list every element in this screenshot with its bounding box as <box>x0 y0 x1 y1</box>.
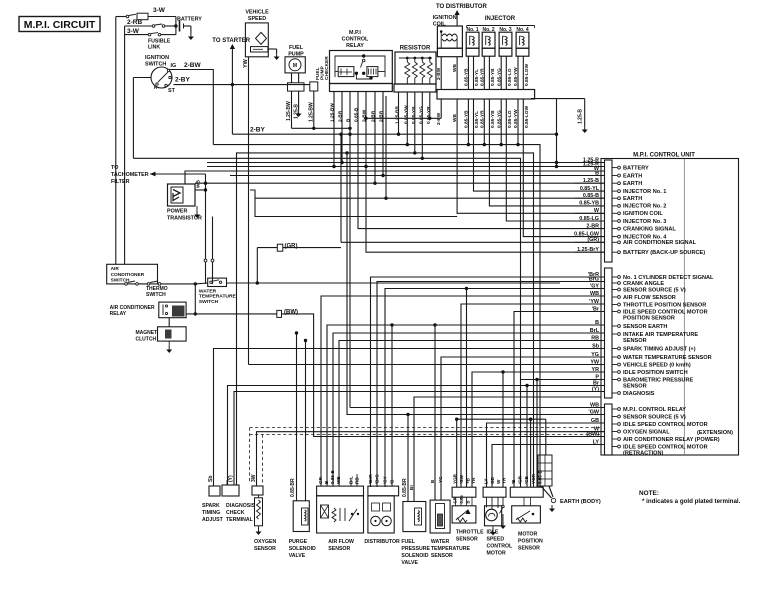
svg-text:IDLE: IDLE <box>487 530 499 536</box>
wire diagnosis Y row <box>234 392 605 486</box>
svg-text:AIR FLOW SENSOR: AIR FLOW SENSOR <box>623 295 676 301</box>
svg-text:0.85-YB: 0.85-YB <box>490 68 496 86</box>
power transistor Q1 <box>168 184 196 206</box>
air flow extra pins <box>350 480 352 486</box>
svg-text:SENSOR: SENSOR <box>518 546 540 552</box>
wire power transistor right riser <box>205 174 207 259</box>
svg-text:LY: LY <box>484 479 489 484</box>
svg-text:GB: GB <box>490 476 495 484</box>
injector No. 1 pins <box>467 56 469 89</box>
wire air-flow GY riser <box>466 289 468 488</box>
ground earth body <box>551 505 553 509</box>
svg-text:CONDITIONER: CONDITIONER <box>111 272 145 278</box>
svg-text:CHECK: CHECK <box>226 510 245 516</box>
wire air flow BrL row <box>333 333 605 486</box>
wire 2-BW branch to bus <box>440 99 442 118</box>
svg-text:0.85-YL: 0.85-YL <box>474 111 480 128</box>
svg-text:SPEED: SPEED <box>248 16 266 22</box>
throttle sensor <box>452 487 476 497</box>
wire fuel pump 1.25-BW down <box>291 91 293 128</box>
svg-text:1.25-BW: 1.25-BW <box>309 102 315 122</box>
wire barometric P row <box>521 379 605 381</box>
svg-text:OXYGEN: OXYGEN <box>254 539 276 545</box>
wire idle motor GB row <box>487 423 605 487</box>
wire relay 0.85-B row <box>386 96 605 198</box>
svg-text:1.25-BW: 1.25-BW <box>286 101 292 121</box>
svg-text:0.85-YR: 0.85-YR <box>426 106 432 124</box>
svg-text:'GY: 'GY <box>383 476 388 484</box>
svg-text:BAROMETRIC PRESSURE: BAROMETRIC PRESSURE <box>623 377 694 383</box>
svg-text:SENSOR: SENSOR <box>254 546 276 552</box>
svg-text:0.85-YW: 0.85-YW <box>404 105 410 124</box>
wire YW vehicle speed down <box>248 57 250 365</box>
svg-text:BATTERY: BATTERY <box>623 165 649 171</box>
svg-text:INJECTOR: INJECTOR <box>485 16 516 22</box>
wire vehicle speed YW row <box>249 364 605 366</box>
wire ST 2-BY <box>174 84 311 86</box>
wire idle motor switch riser <box>502 372 504 487</box>
svg-text:PRESSURE: PRESSURE <box>401 546 430 552</box>
svg-text:SENSOR: SENSOR <box>431 553 453 559</box>
wire air flow RB row <box>339 341 605 487</box>
svg-text:M: M <box>293 63 297 69</box>
svg-text:AIR CONDITIONER RELAY (POWER): AIR CONDITIONER RELAY (POWER) <box>623 437 720 443</box>
svg-text:SENSOR SOURCE (5 V): SENSOR SOURCE (5 V) <box>623 414 686 420</box>
svg-text:IDLE SPEED CONTROL MOTOR: IDLE SPEED CONTROL MOTOR <box>623 309 708 315</box>
svg-text:0.85-YW: 0.85-YW <box>513 67 519 86</box>
relay pins down <box>333 92 335 97</box>
wire 2-RB fuse line <box>125 25 152 27</box>
svg-text:ST: ST <box>168 88 176 94</box>
svg-text:(GR): (GR) <box>285 244 298 250</box>
battery B1 <box>174 24 177 27</box>
svg-text:TO DISTRIBUTOR: TO DISTRIBUTOR <box>436 4 487 10</box>
wire fuel pump 1.25-B to earth <box>298 91 300 110</box>
svg-text:WATER TEMPERATURE SENSOR: WATER TEMPERATURE SENSOR <box>623 355 712 361</box>
svg-text:AIR: AIR <box>111 266 120 272</box>
wire barometric Br row <box>228 386 605 486</box>
svg-text:VALVE: VALVE <box>401 560 418 566</box>
svg-text:M.P.I. CONTROL RELAY: M.P.I. CONTROL RELAY <box>623 407 686 413</box>
svg-text:W: W <box>496 479 501 484</box>
svg-text:EARTH: EARTH <box>623 196 642 202</box>
svg-text:0.85-BR: 0.85-BR <box>290 478 296 497</box>
svg-text:0.85-YG: 0.85-YG <box>496 68 502 86</box>
wire injector feed stubs <box>467 99 469 145</box>
svg-text:CLUTCH: CLUTCH <box>136 337 157 343</box>
svg-text:FUEL: FUEL <box>289 45 304 51</box>
connector (BW) <box>277 310 282 317</box>
svg-text:'B: 'B <box>511 479 516 484</box>
wire relay 1.25-B row <box>195 182 605 184</box>
svg-text:0.85-BR: 0.85-BR <box>402 478 408 497</box>
svg-text:BrL: BrL <box>349 476 354 484</box>
svg-text:ADJUST: ADJUST <box>202 517 224 523</box>
svg-text:WATER: WATER <box>199 288 217 294</box>
injector No. 4 pins <box>517 56 519 89</box>
svg-text:INJECTOR No. 3: INJECTOR No. 3 <box>623 219 666 225</box>
shield dashes around oxygen wire <box>250 427 602 429</box>
svg-text:1.25-BW: 1.25-BW <box>330 103 336 122</box>
wire ignition coil W row <box>457 99 604 213</box>
svg-text:AIR CONDITIONER SIGNAL: AIR CONDITIONER SIGNAL <box>623 240 697 246</box>
svg-text:GR: GR <box>453 497 458 503</box>
wire injector1 0.85-YL row <box>474 99 605 191</box>
wire relay pin deep drop to MPI-relay row <box>349 96 351 408</box>
wire bus 2-BY horizontal <box>232 133 556 135</box>
svg-text:EARTH: EARTH <box>623 173 642 179</box>
wire injector3 row <box>506 99 604 221</box>
wire resistor drops <box>398 96 400 134</box>
svg-text:0.85-LG: 0.85-LG <box>507 68 513 86</box>
svg-text:0.85-YG: 0.85-YG <box>419 106 425 124</box>
svg-text:'BrR: 'BrR <box>368 474 373 484</box>
svg-text:YW: YW <box>243 58 249 68</box>
wire AC relay coil down <box>168 318 170 327</box>
svg-text:COIL: COIL <box>433 22 447 28</box>
air conditioner switch box <box>107 264 158 284</box>
svg-text:MOTOR: MOTOR <box>487 551 506 557</box>
svg-text:0.85-YL: 0.85-YL <box>474 69 480 86</box>
svg-text:TERMINAL: TERMINAL <box>226 517 254 523</box>
svg-text:YR: YR <box>502 477 507 484</box>
svg-text:IGNITION: IGNITION <box>433 15 457 21</box>
wire idle position switch YR row <box>472 372 605 487</box>
wire distributor GY sensor source row <box>385 289 605 488</box>
svg-text:VEHICLE SPEED (0 km/h): VEHICLE SPEED (0 km/h) <box>623 362 691 368</box>
wire vehicle speed to earth <box>268 48 276 50</box>
svg-text:YG: YG <box>438 476 443 483</box>
wire bus y144 from ignition IG <box>213 145 540 487</box>
wire second riser with connector <box>212 217 214 260</box>
svg-text:M.P.I. CIRCUIT: M.P.I. CIRCUIT <box>24 19 96 31</box>
ground power transistor <box>196 206 198 211</box>
motor position pin risers <box>526 386 528 488</box>
wire thermo junction riser to BW line <box>194 284 196 314</box>
svg-text:VEHICLE: VEHICLE <box>245 10 269 16</box>
wire AC relay BW row <box>282 314 605 437</box>
svg-text:EARTH (BODY): EARTH (BODY) <box>560 499 601 505</box>
svg-text:DIAGNOSIS: DIAGNOSIS <box>623 391 655 397</box>
wire fuel pump checker down <box>313 91 315 128</box>
ground magnet clutch <box>168 341 170 346</box>
svg-text:TEMPERATURE: TEMPERATURE <box>431 546 471 552</box>
wire injector4 row <box>523 99 604 237</box>
wire relay pin risers to MPI rows <box>342 96 605 163</box>
wire 3-W top fuse line <box>116 16 126 18</box>
svg-text:3-W: 3-W <box>153 7 166 14</box>
svg-text:2-BW: 2-BW <box>436 67 442 80</box>
svg-text:LINK: LINK <box>148 45 160 51</box>
wire 1.25-BrY backup row <box>366 96 605 252</box>
svg-text:FUEL: FUEL <box>401 539 415 545</box>
wire water temp B riser <box>434 325 436 500</box>
svg-text:POSITION: POSITION <box>518 539 543 545</box>
connector strip segment 3 <box>605 404 613 455</box>
wire water temp YG row <box>441 357 605 500</box>
svg-text:2-BY: 2-BY <box>175 77 190 84</box>
svg-text:2-RB: 2-RB <box>127 19 142 26</box>
svg-text:2-BR: 2-BR <box>338 110 344 122</box>
svg-text:OXYGEN SIGNAL: OXYGEN SIGNAL <box>623 429 670 435</box>
svg-text:POWER: POWER <box>167 209 187 215</box>
svg-text:IDLE SPEED CONTROL MOTOR: IDLE SPEED CONTROL MOTOR <box>623 444 708 450</box>
svg-text:1.25-B: 1.25-B <box>578 109 584 124</box>
svg-text:SENSOR SOURCE (5 V): SENSOR SOURCE (5 V) <box>623 287 686 293</box>
wire sensor source GW row <box>347 153 605 415</box>
wire motor position Br row <box>514 312 605 488</box>
svg-text:0.85-B: 0.85-B <box>538 470 543 484</box>
wire ignition switch to left feeder <box>133 77 151 79</box>
svg-text:TEMPERATURE: TEMPERATURE <box>199 294 237 300</box>
svg-text:SPEED: SPEED <box>487 537 505 543</box>
wire purge riser <box>296 333 298 501</box>
svg-text:TACHOMETER: TACHOMETER <box>111 172 149 178</box>
svg-text:BATTERY (BACK-UP SOURCE): BATTERY (BACK-UP SOURCE) <box>623 250 705 256</box>
svg-text:YR: YR <box>471 477 476 484</box>
svg-text:IDLE POSITION SWITCH: IDLE POSITION SWITCH <box>623 370 688 376</box>
distributor earth pin <box>391 325 393 486</box>
wire air flow WB row <box>321 296 605 486</box>
motor position sensor <box>510 487 543 497</box>
wire injector2 row <box>489 99 604 206</box>
svg-text:0.85-B: 0.85-B <box>354 107 360 122</box>
wire throttle earth riser <box>456 419 458 487</box>
MPI pin ticks and terminal labels <box>612 167 617 169</box>
svg-text:THROTTLE POSITION SENSOR: THROTTLE POSITION SENSOR <box>623 302 706 308</box>
ignition coil pins down <box>440 57 442 90</box>
svg-text:* indicates a gold plated term: * indicates a gold plated terminal. <box>642 498 741 505</box>
wire 2-BY drop to bus <box>231 85 233 135</box>
svg-text:CRANK ANGLE: CRANK ANGLE <box>623 281 664 287</box>
svg-text:(Y): (Y) <box>228 475 234 482</box>
title box M.P.I. CIRCUIT <box>19 17 100 32</box>
svg-text:DISTRIBUTOR: DISTRIBUTOR <box>364 539 400 545</box>
svg-text:AIR FLOW: AIR FLOW <box>328 539 354 545</box>
svg-text:1.25-BR: 1.25-BR <box>395 106 401 124</box>
svg-text:PURGE: PURGE <box>289 539 308 545</box>
svg-text:SENSOR EARTH: SENSOR EARTH <box>623 324 667 330</box>
svg-text:CONTROL: CONTROL <box>487 544 513 550</box>
svg-text:0.85-LGW: 0.85-LGW <box>524 105 530 128</box>
svg-text:SPARK TIMING ADJUST (+): SPARK TIMING ADJUST (+) <box>623 346 696 352</box>
svg-text:FILTER: FILTER <box>111 179 130 185</box>
wire left feeder B down to A/C switch <box>124 26 126 264</box>
svg-text:TO: TO <box>111 165 118 171</box>
wire jog stub near oxygen column <box>250 190 457 217</box>
svg-text:INTAKE AIR TEMPERATURE: INTAKE AIR TEMPERATURE <box>623 332 698 338</box>
svg-text:RELAY: RELAY <box>346 43 364 49</box>
joint connector <box>538 455 552 486</box>
svg-text:WATER: WATER <box>431 539 450 545</box>
svg-text:IDLE SPEED CONTROL MOTOR: IDLE SPEED CONTROL MOTOR <box>623 422 708 428</box>
wire relay 2-BR cranking row <box>358 96 605 229</box>
wire left feeder A down to A/C switch <box>115 17 117 265</box>
svg-text:M.P.I: M.P.I <box>349 30 361 36</box>
wire to earth body <box>541 486 552 498</box>
svg-text:B: B <box>346 118 352 122</box>
ground at battery <box>190 33 192 37</box>
svg-text:IGNITION COIL: IGNITION COIL <box>623 211 663 217</box>
svg-text:WB: WB <box>196 179 202 188</box>
idle speed control motor <box>483 487 506 497</box>
svg-text:WB: WB <box>452 63 458 72</box>
water temperature switch <box>208 278 227 286</box>
svg-text:+B: +B <box>466 477 471 484</box>
svg-text:INJECTOR No. 2: INJECTOR No. 2 <box>623 204 666 210</box>
wire oxygen W row <box>257 432 605 486</box>
svg-text:DIAGNOSIS: DIAGNOSIS <box>226 503 256 509</box>
svg-text:SENSOR: SENSOR <box>623 338 647 344</box>
air flow sensor <box>317 486 364 496</box>
svg-text:3W: 3W <box>251 474 257 482</box>
svg-text:EARTH: EARTH <box>623 181 642 187</box>
svg-text:2-BR: 2-BR <box>379 110 385 122</box>
wire AC relay to BW connector <box>186 313 277 315</box>
wire A/C switch bottom lead <box>109 283 126 285</box>
svg-text:YGR: YGR <box>531 473 536 484</box>
svg-text:M.P.I. CONTROL UNIT: M.P.I. CONTROL UNIT <box>633 153 695 159</box>
wire idle motor LY row <box>492 445 605 488</box>
svg-text:GR: GR <box>318 476 323 484</box>
svg-text:(RETRACTION): (RETRACTION) <box>623 451 664 457</box>
svg-text:3-W: 3-W <box>127 28 140 35</box>
svg-text:Br: Br <box>409 485 414 490</box>
svg-text:0.85-YB: 0.85-YB <box>464 68 470 86</box>
wire GR to MPI <box>283 247 341 249</box>
svg-text:SOLENOID: SOLENOID <box>289 546 316 552</box>
svg-text:VALVE: VALVE <box>289 553 306 559</box>
wire power transistor W row <box>185 171 605 184</box>
wire motor position earth riser <box>530 419 532 487</box>
wire 1.25-R risers <box>556 99 558 167</box>
svg-text:Sb: Sb <box>208 476 214 482</box>
svg-text:CONTROL: CONTROL <box>342 37 369 43</box>
svg-text:THROTTLE: THROTTLE <box>456 530 484 536</box>
injector No. 2 pins <box>483 56 485 89</box>
svg-text:(BW): (BW) <box>284 310 298 316</box>
wire pump-checker-relay bus <box>292 127 351 129</box>
svg-text:2-BY: 2-BY <box>250 127 265 134</box>
svg-text:'BrG: 'BrG <box>375 474 380 484</box>
svg-text:SENSOR: SENSOR <box>456 537 478 543</box>
svg-text:IG: IG <box>171 63 177 69</box>
wire IG 2-BW <box>169 70 213 145</box>
wire fuel pressure risers <box>407 415 409 502</box>
connector strip segment 1 <box>605 160 613 262</box>
resistor pins down <box>398 92 400 96</box>
distributor <box>368 486 399 496</box>
svg-text:2-BW: 2-BW <box>362 109 368 122</box>
wire bus y158 <box>133 158 520 487</box>
svg-text:0.85-B: 0.85-B <box>330 470 335 484</box>
wire air flow B sensor-earth row <box>327 325 605 486</box>
wire relay B row <box>383 96 605 176</box>
junction connector bar <box>437 90 535 100</box>
wire MPI relay WB row <box>350 407 605 409</box>
svg-text:(EXTENSION): (EXTENSION) <box>697 430 733 436</box>
svg-text:MOTOR: MOTOR <box>518 532 537 538</box>
svg-text:'GW: 'GW <box>459 474 464 484</box>
svg-text:BATTERY: BATTERY <box>177 17 202 23</box>
svg-text:SPARK: SPARK <box>202 503 220 509</box>
svg-text:RB: RB <box>355 477 360 484</box>
connector strip segment 2 <box>605 268 613 398</box>
wire purge second riser <box>305 341 307 501</box>
connector (GR) <box>277 244 283 251</box>
svg-text:POSITION SENSOR: POSITION SENSOR <box>623 316 675 322</box>
svg-text:0.85: 0.85 <box>459 495 464 504</box>
svg-text:RESISTOR: RESISTOR <box>400 46 431 52</box>
svg-text:0.85-LGW: 0.85-LGW <box>524 63 530 86</box>
label 1.25-B earth branch <box>531 98 585 100</box>
wire distributor BrG row <box>377 282 605 488</box>
svg-text:2-BW: 2-BW <box>184 62 201 69</box>
svg-text:NOTE:: NOTE: <box>639 490 659 497</box>
svg-text:SWITCH: SWITCH <box>146 292 166 298</box>
svg-text:2-BR: 2-BR <box>371 110 377 122</box>
wire throttle YW row <box>461 304 605 487</box>
svg-text:SENSOR: SENSOR <box>328 546 350 552</box>
svg-text:SWITCH: SWITCH <box>199 299 219 305</box>
svg-text:YGR: YGR <box>453 473 458 484</box>
wire GR tap riser <box>256 248 258 283</box>
svg-text:SOLENOID: SOLENOID <box>401 553 428 559</box>
svg-text:0.85-LG: 0.85-LG <box>507 110 513 128</box>
svg-text:MAGNET: MAGNET <box>136 330 158 336</box>
svg-text:0.85-YB: 0.85-YB <box>411 106 417 124</box>
svg-text:TIMING: TIMING <box>202 510 220 516</box>
wire earth bus <box>457 418 546 420</box>
svg-text:CRANKING SIGNAL: CRANKING SIGNAL <box>623 226 676 232</box>
wire water temp switch output <box>227 282 561 284</box>
wire 3-W fusible link line <box>125 34 148 36</box>
injector No. 3 pins <box>500 56 502 89</box>
svg-text:WB: WB <box>336 476 341 484</box>
svg-text:'GR: 'GR <box>518 475 523 484</box>
wire spark timing Sb row <box>214 349 605 487</box>
wire bus y153 from diagnosis <box>237 153 534 487</box>
svg-text:0.85-YR: 0.85-YR <box>480 68 486 86</box>
svg-text:RELAY: RELAY <box>110 311 127 317</box>
wire distributor BrR row <box>371 277 605 487</box>
svg-text:IGNITION: IGNITION <box>145 55 169 61</box>
svg-text:SENSOR: SENSOR <box>623 384 647 390</box>
svg-text:0.85-YB: 0.85-YB <box>490 110 496 128</box>
svg-text:INJECTOR No. 1: INJECTOR No. 1 <box>623 189 666 195</box>
